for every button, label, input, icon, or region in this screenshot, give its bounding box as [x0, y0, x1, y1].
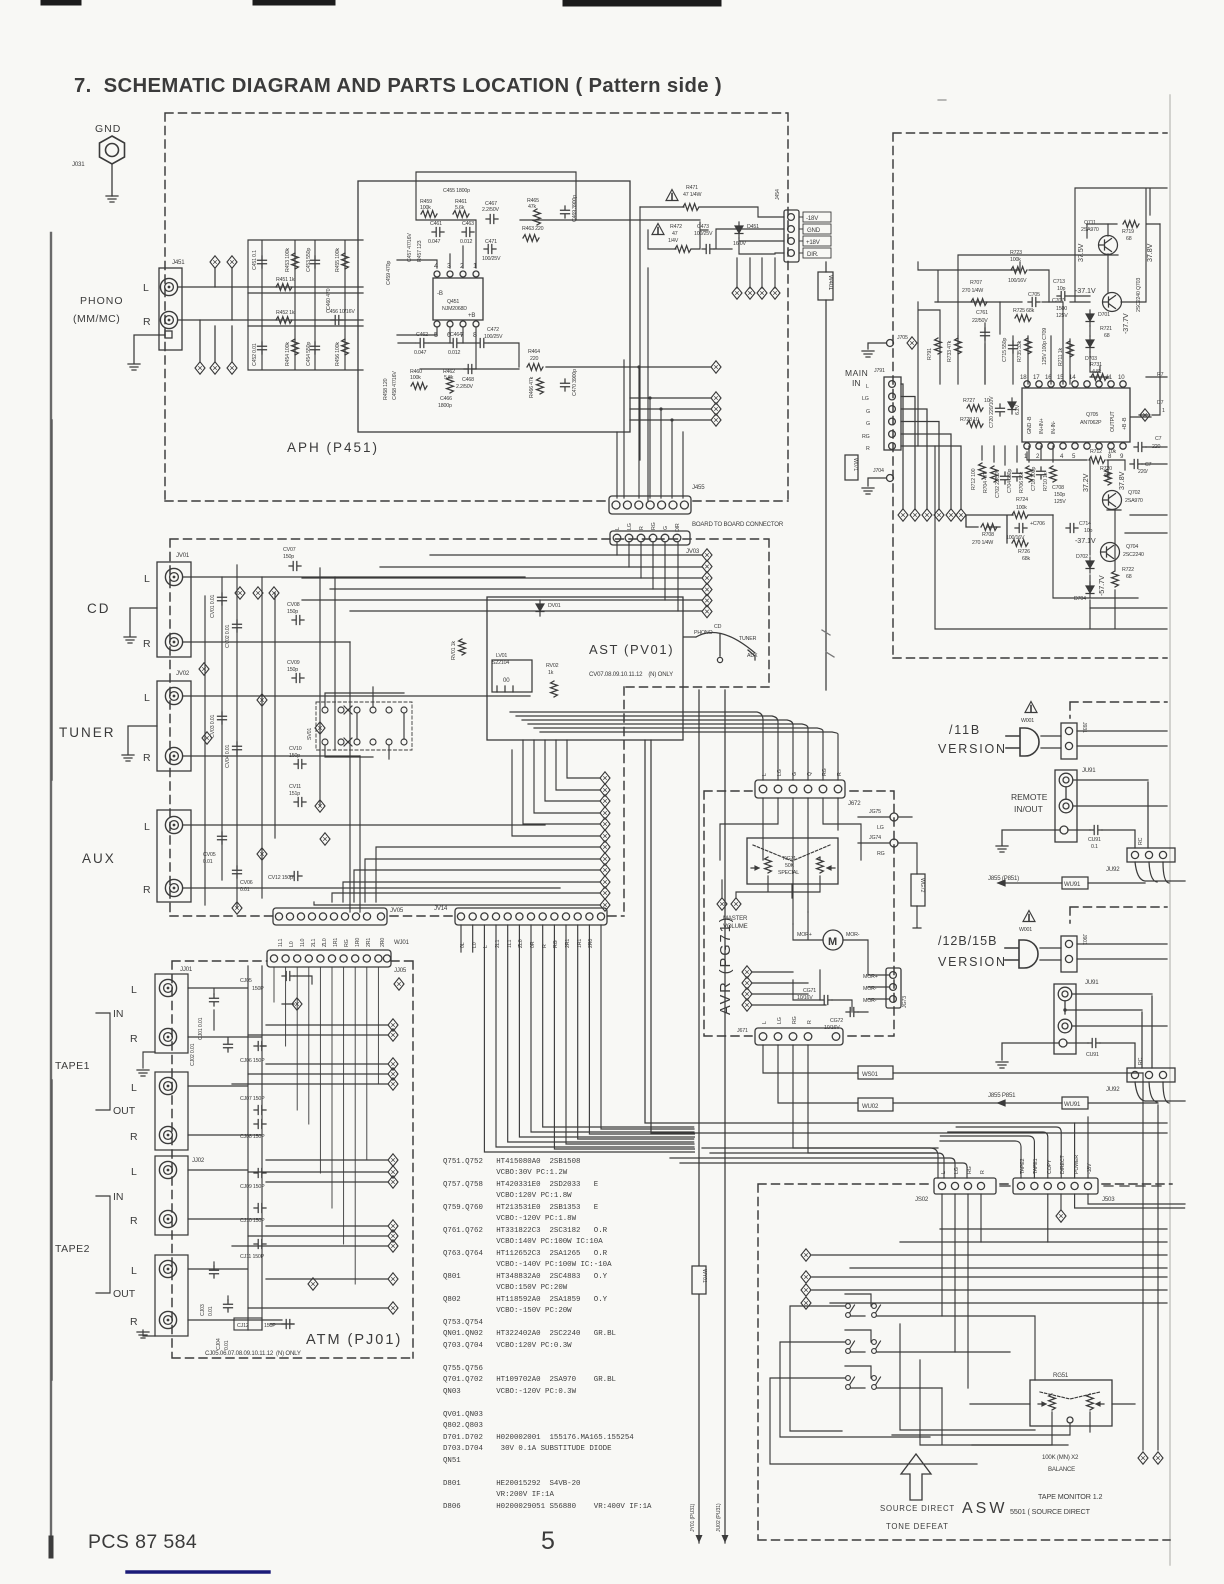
svg-text:LV01: LV01 — [496, 653, 507, 659]
node diamonds supply — [732, 287, 742, 299]
motor M — [823, 930, 843, 950]
resistor R461 — [453, 211, 469, 218]
svg-text:Q761.Q762 HT331822C3 2SC318: Q761.Q762 HT331822C3 2SC3182 O.R — [443, 1227, 608, 1235]
wire diamond feeds — [752, 972, 826, 1005]
svg-text:LG: LG — [627, 523, 633, 530]
wire fan rows upper — [512, 740, 600, 836]
jack TAPE1 OUT L — [159, 1077, 176, 1094]
svg-text:VCBO:-120V PC:1.8W: VCBO:-120V PC:1.8W — [443, 1215, 577, 1223]
resistor RG51 right — [1087, 1394, 1094, 1410]
svg-text:DIR.: DIR. — [807, 251, 819, 258]
svg-text:W001: W001 — [1019, 927, 1032, 933]
capacitor CJ03 — [210, 1266, 219, 1278]
capacitor CV04 — [233, 742, 242, 754]
svg-text:R735 33k: R735 33k — [1017, 340, 1023, 362]
svg-text:SOURCE DIRECT: SOURCE DIRECT — [880, 1504, 955, 1513]
svg-text:JU02 (PU31): JU02 (PU31) — [716, 1503, 722, 1532]
svg-text:LG: LG — [777, 769, 783, 776]
svg-text:L0: L0 — [289, 941, 295, 947]
ground — [124, 637, 136, 643]
node diamonds above phono wires — [210, 256, 220, 268]
capacitor C467 — [486, 215, 498, 224]
cable tag W071 — [845, 455, 858, 480]
svg-text:5: 5 — [1072, 453, 1076, 460]
connector J671 — [755, 1028, 843, 1045]
svg-text:LG: LG — [877, 825, 884, 831]
svg-text:W001: W001 — [1021, 718, 1034, 724]
svg-text:C464: C464 — [450, 332, 462, 338]
svg-text:125V 100p C709: 125V 100p C709 — [1042, 328, 1048, 365]
svg-text:-57.7V: -57.7V — [1097, 575, 1106, 596]
transistor Q702 — [1103, 491, 1122, 510]
wire SV01 row links — [325, 687, 404, 759]
svg-text:125V: 125V — [1056, 313, 1068, 319]
svg-text:QN01.QN02 HT322402A0 2SC224: QN01.QN02 HT322402A0 2SC2240 GR.BL — [443, 1330, 616, 1338]
diode D701 — [1086, 310, 1094, 326]
svg-text:+18V: +18V — [806, 239, 821, 246]
svg-text:ZL0: ZL0 — [322, 938, 328, 947]
svg-text:PHONO: PHONO — [80, 295, 124, 307]
connector JG75 — [890, 813, 898, 821]
svg-text:R: R — [130, 1215, 138, 1227]
svg-text:1800p: 1800p — [438, 403, 452, 409]
resistor RG51 left — [1049, 1394, 1056, 1410]
svg-text:R458 120: R458 120 — [383, 378, 389, 400]
capacitor C704 — [1013, 469, 1022, 481]
capacitor C713 — [1057, 292, 1069, 301]
svg-text:D701: D701 — [1098, 312, 1110, 318]
ATM board dashed outline — [172, 961, 413, 1358]
cable tag WG72 — [911, 874, 925, 906]
resistor R712 — [1089, 457, 1105, 464]
svg-text:37.5V: 37.5V — [1076, 243, 1085, 262]
wire J672 into board — [720, 798, 861, 924]
wire tape1 ground — [143, 1052, 155, 1068]
svg-text:NJM2068D: NJM2068D — [442, 306, 467, 312]
svg-text:VOLUME: VOLUME — [723, 923, 748, 930]
svg-text:C454 550p: C454 550p — [306, 342, 312, 366]
node diamonds JV03 — [702, 549, 712, 561]
svg-text:18: 18 — [1020, 374, 1027, 381]
svg-text:L: L — [131, 1265, 137, 1277]
svg-text:1R0: 1R0 — [355, 938, 361, 947]
svg-text:L: L — [762, 1021, 768, 1024]
connector JG73 — [886, 968, 901, 1008]
resistor R466 — [537, 378, 544, 394]
ground — [996, 846, 1008, 852]
node diamonds below — [195, 362, 205, 374]
wire WU91 run with arrow — [998, 880, 1062, 886]
svg-text:CJ06 150P: CJ06 150P — [240, 1058, 265, 1064]
svg-text:TAPE MONITOR 1.2: TAPE MONITOR 1.2 — [1038, 1492, 1103, 1501]
svg-text:R720: R720 — [1100, 466, 1112, 472]
svg-text:J704: J704 — [873, 468, 884, 474]
svg-text:270 1/4W: 270 1/4W — [972, 540, 993, 546]
svg-text:C453 550p: C453 550p — [306, 248, 312, 272]
resistor R712b — [979, 463, 986, 479]
svg-text:17: 17 — [1033, 374, 1040, 381]
svg-text:J672: J672 — [848, 800, 861, 807]
svg-text:L: L — [131, 1166, 137, 1178]
svg-text:M: M — [828, 936, 837, 948]
svg-text:L: L — [941, 1171, 947, 1174]
svg-text:VCBO:120V PC:1.8W: VCBO:120V PC:1.8W — [443, 1192, 572, 1200]
connector MAIN IN — [884, 377, 901, 450]
svg-text:C471: C471 — [485, 239, 497, 245]
svg-text:C708: C708 — [1052, 485, 1064, 491]
dashed board edge P851 — [1070, 702, 1167, 718]
wire cap rows to diamonds — [232, 976, 388, 1324]
svg-text:JV03: JV03 — [686, 548, 700, 555]
wire dashed right of JS03 — [1104, 1185, 1167, 1187]
capacitor C453 — [311, 256, 320, 268]
capacitor CV08 — [292, 616, 304, 625]
arrow JY01 — [696, 1535, 703, 1543]
wire power drops — [1075, 1194, 1185, 1208]
svg-text:D702: D702 — [1076, 554, 1088, 560]
svg-text:D704: D704 — [1074, 596, 1086, 602]
node diamond — [907, 337, 917, 349]
power amp board dashed outline — [893, 133, 1167, 658]
ground — [137, 1332, 149, 1338]
svg-text:C459 470p: C459 470p — [386, 261, 392, 285]
svg-text:100k: 100k — [420, 205, 431, 211]
wire J704 to ground — [868, 478, 886, 486]
svg-text:AUX: AUX — [82, 851, 116, 866]
wire phono R return — [248, 325, 363, 327]
connector JV05 — [273, 908, 387, 925]
svg-text:R454 100k: R454 100k — [285, 342, 291, 366]
svg-text:R721: R721 — [1100, 326, 1112, 332]
transistor Q711 — [1099, 236, 1118, 255]
svg-text:C720 220/10V: C720 220/10V — [989, 396, 995, 428]
resistor R710 — [1050, 466, 1057, 482]
svg-text:0.01: 0.01 — [224, 1340, 230, 1350]
scan marks — [822, 630, 834, 657]
IC Q705 AN7062P — [1022, 381, 1130, 449]
net labels -18V GND +18V DIR — [799, 212, 831, 258]
wire pin3 to ground — [1002, 1043, 1059, 1060]
resistor RG71 left — [765, 857, 772, 873]
svg-text:R712: R712 — [1090, 449, 1102, 455]
svg-text:C713: C713 — [1053, 279, 1065, 285]
svg-text:R707: R707 — [970, 280, 982, 286]
svg-text:68: 68 — [1104, 333, 1110, 339]
wire verticals to J455 — [617, 360, 683, 498]
svg-text:C705: C705 — [1028, 292, 1040, 298]
jack AUX L — [165, 816, 182, 833]
resistor R726 — [1012, 540, 1028, 547]
svg-text:IN-IN-: IN-IN- — [1051, 421, 1057, 434]
jack frame AUX — [157, 810, 191, 902]
svg-text:1L1: 1L1 — [278, 939, 284, 947]
capacitor C710 — [1037, 467, 1046, 479]
svg-text:SV01: SV01 — [307, 728, 313, 740]
capacitor C720 — [996, 404, 1005, 416]
capacitor CJ04 — [224, 1300, 233, 1312]
capacitor CJ02 — [224, 1040, 233, 1052]
connector JJ05 strip — [267, 950, 391, 967]
svg-text:RV01 1k: RV01 1k — [451, 641, 457, 660]
svg-text:2L1: 2L1 — [311, 939, 317, 947]
svg-text:AN7062P: AN7062P — [1080, 420, 1102, 426]
connector JU91 — [1055, 770, 1077, 842]
svg-text:C452 0.01: C452 0.01 — [252, 343, 258, 366]
resistor R711 — [1067, 341, 1074, 357]
wire amp structure — [918, 188, 1167, 446]
svg-text:TUNER: TUNER — [739, 636, 757, 642]
svg-text:2SC2240: 2SC2240 — [1123, 552, 1144, 558]
svg-text:LG: LG — [862, 396, 869, 402]
svg-text:L: L — [131, 1082, 137, 1094]
svg-text:JU91: JU91 — [1085, 979, 1099, 986]
connector JS02 — [934, 1178, 996, 1194]
capacitor C471 — [484, 245, 496, 254]
svg-text:WJ01: WJ01 — [394, 939, 410, 946]
svg-text:R719: R719 — [1122, 229, 1134, 235]
resistor R727 — [967, 405, 983, 412]
svg-text:CV03 0.01: CV03 0.01 — [210, 715, 216, 738]
ground — [106, 196, 118, 202]
svg-text:Q753.Q754: Q753.Q754 — [443, 1319, 483, 1327]
svg-text:CJ05.06.07.08.09.10.11.12 (N): CJ05.06.07.08.09.10.11.12 (N) ONLY — [205, 1350, 301, 1357]
svg-text:JV14: JV14 — [434, 905, 448, 912]
svg-text:1500: 1500 — [1056, 306, 1067, 312]
volume control RG71 — [747, 838, 838, 884]
svg-text:C460 470: C460 470 — [326, 288, 332, 310]
wire cap to JU92 second — [1067, 1043, 1135, 1068]
capacitor C451 — [258, 256, 267, 268]
svg-text:WU02: WU02 — [862, 1103, 879, 1110]
svg-text:Q: Q — [807, 772, 813, 776]
svg-text:/11B: /11B — [949, 723, 981, 737]
wire JU91 second right — [1065, 994, 1167, 1068]
resistor R728 — [967, 421, 983, 428]
svg-text:CV11: CV11 — [289, 784, 301, 790]
wire cap to JU92 — [1068, 830, 1135, 848]
svg-text:10k: 10k — [1108, 449, 1116, 455]
capacitor CU91 second — [1088, 1039, 1100, 1048]
svg-text:-37.1V: -37.1V — [1075, 536, 1096, 545]
node diamonds right — [711, 392, 721, 404]
svg-text:GND -B: GND -B — [1027, 416, 1033, 434]
svg-text:G: G — [866, 409, 870, 415]
rotary selector arc — [684, 633, 755, 663]
svg-text:0.012: 0.012 — [448, 350, 461, 356]
resistor R451 — [276, 284, 292, 291]
svg-text:100k: 100k — [410, 375, 421, 381]
svg-text:10p: 10p — [1084, 528, 1092, 534]
svg-text:270 1/4W: 270 1/4W — [962, 288, 983, 294]
svg-text:2: 2 — [1036, 453, 1040, 460]
AVR board dashed outline — [704, 791, 894, 1036]
svg-text:R451 1k: R451 1k — [276, 277, 295, 283]
svg-text:C457 47/16V: C457 47/16V — [407, 233, 413, 262]
capacitor C7 right — [1134, 443, 1146, 452]
node diamonds speaker row — [898, 509, 908, 521]
svg-text:DV01: DV01 — [548, 603, 561, 609]
svg-text:IN/OUT: IN/OUT — [1014, 804, 1043, 814]
svg-text:Q755.Q756: Q755.Q756 — [443, 1365, 483, 1373]
AST solid box — [487, 597, 683, 740]
svg-text:22/50V: 22/50V — [972, 318, 988, 324]
svg-text:L: L — [144, 821, 150, 833]
wire JG73 feeds — [868, 975, 889, 999]
center tap — [1067, 1417, 1073, 1423]
connector J705 — [887, 340, 894, 347]
warning triangle R471 — [666, 190, 678, 201]
svg-text:AVR (PG71): AVR (PG71) — [718, 915, 734, 1015]
svg-text:R: R — [866, 446, 870, 452]
transistor Q704 — [1101, 543, 1120, 562]
svg-text:R724: R724 — [1016, 497, 1028, 503]
svg-text:JV01: JV01 — [176, 552, 190, 559]
muting device LV01 S22104 — [492, 660, 532, 692]
svg-text:RC: RC — [1138, 837, 1144, 845]
connector J704 — [887, 475, 894, 482]
wire JU92 second hooks — [1135, 1082, 1185, 1103]
wire RG71 bottoms — [722, 876, 820, 898]
switch bank column A — [846, 1304, 855, 1318]
jack TUNER R — [165, 747, 182, 764]
wire vertical buses — [205, 565, 360, 912]
warning triangle R472 — [652, 224, 664, 235]
svg-text:RV02: RV02 — [546, 663, 559, 669]
capacitor C452 — [258, 342, 267, 354]
svg-text:150p: 150p — [287, 667, 298, 673]
svg-text:47: 47 — [672, 231, 678, 237]
arrow JU02 — [722, 1535, 729, 1543]
svg-text:Q703.Q704 VCBO:120V PC:0.3W: Q703.Q704 VCBO:120V PC:0.3W — [443, 1342, 572, 1350]
capacitor CV03 — [218, 712, 227, 724]
resistor R471 — [683, 204, 699, 211]
svg-text:68: 68 — [1104, 473, 1110, 479]
svg-text:100k: 100k — [1016, 505, 1027, 511]
cable tag WS01 — [858, 1066, 893, 1079]
svg-text:CV08: CV08 — [287, 602, 300, 608]
capacitor C470 — [561, 379, 570, 391]
svg-text:VCBO:150V PC:20W: VCBO:150V PC:20W — [443, 1284, 568, 1292]
svg-text:100K (MN) X2: 100K (MN) X2 — [1042, 1454, 1079, 1461]
node diamond — [1140, 409, 1150, 421]
ground — [996, 1062, 1008, 1068]
svg-text:R712 100: R712 100 — [971, 468, 977, 490]
connector J455 — [609, 496, 691, 514]
diode D702 — [1086, 557, 1094, 573]
svg-text:R: R — [130, 1131, 138, 1143]
svg-text:100/25V: 100/25V — [694, 231, 713, 237]
resistor R463 — [523, 235, 539, 242]
svg-text:CJ04: CJ04 — [216, 1338, 222, 1350]
jack TAPE2 OUT L — [159, 1260, 176, 1277]
svg-text:+B -B: +B -B — [1122, 417, 1128, 430]
svg-text:SPECIAL: SPECIAL — [778, 870, 799, 876]
connector JU92 — [1127, 848, 1175, 862]
svg-text:Q802 HT118592A0 2SA185: Q802 HT118592A0 2SA1859 O.Y — [443, 1296, 608, 1304]
svg-text:68: 68 — [1126, 236, 1132, 242]
resistor R455 — [342, 253, 349, 269]
svg-text:47 1/4W: 47 1/4W — [683, 192, 702, 198]
wire WU91 right — [1088, 882, 1145, 884]
node diamond — [394, 978, 404, 990]
svg-text:J791: J791 — [874, 368, 885, 374]
switch SV01 contacts row 1 — [322, 706, 407, 714]
svg-text:50K: 50K — [785, 863, 794, 869]
svg-text:L: L — [615, 527, 621, 530]
svg-text:D701.D702 H020002001 155176: D701.D702 H020002001 155176.MA165.155254 — [443, 1434, 634, 1442]
svg-text:C714: C714 — [1079, 521, 1091, 527]
svg-text:AUX: AUX — [747, 653, 758, 659]
svg-text:TONE DEFEAT: TONE DEFEAT — [886, 1522, 949, 1531]
svg-text:5: 5 — [541, 1527, 555, 1555]
resistor R725 — [1015, 315, 1031, 322]
svg-text:L: L — [143, 282, 149, 294]
svg-text:QN51: QN51 — [443, 1457, 461, 1465]
node diamonds input area — [235, 587, 245, 599]
svg-text:151p: 151p — [289, 791, 300, 797]
svg-text:R455 100k: R455 100k — [335, 248, 341, 272]
svg-text:WG72: WG72 — [919, 878, 925, 892]
capacitor CJ06 — [254, 1042, 266, 1051]
wire JS02 feed bundle — [670, 1148, 967, 1178]
svg-text:WU91: WU91 — [1064, 1101, 1081, 1108]
svg-text:1L0: 1L0 — [300, 939, 306, 947]
wire CD ground — [130, 608, 157, 636]
svg-text:S22104: S22104 — [492, 660, 509, 666]
resistor R708 — [981, 524, 997, 531]
page fold crease — [1169, 95, 1171, 1565]
svg-text:J455: J455 — [692, 484, 705, 491]
svg-text:R: R — [980, 1170, 986, 1174]
svg-text:G: G — [792, 772, 798, 776]
svg-text:C702 22/50V: C702 22/50V — [995, 469, 1001, 498]
warning triangle W001 — [1025, 702, 1037, 713]
capacitor CJ10 — [254, 1204, 266, 1213]
svg-text:WY01: WY01 — [701, 1269, 707, 1283]
svg-text:Q801 HT348832A0 2SC488: Q801 HT348832A0 2SC4883 O.Y — [443, 1273, 608, 1281]
capacitor CJ01 — [210, 994, 219, 1006]
input board dashed outline — [170, 539, 769, 916]
svg-text:CJ09 150P: CJ09 150P — [240, 1184, 265, 1190]
svg-text:CV02 0.01: CV02 0.01 — [225, 625, 231, 648]
svg-text:IN+IN+: IN+IN+ — [1039, 418, 1045, 434]
svg-text:0.01: 0.01 — [208, 1306, 214, 1316]
wire JG pins — [858, 817, 917, 874]
capacitor C702 — [1001, 472, 1010, 484]
cable tag WU02 — [858, 1098, 893, 1111]
capacitor CJ08 — [254, 1120, 266, 1129]
svg-text:JJ02: JJ02 — [192, 1157, 205, 1164]
svg-text:Q802.Q803: Q802.Q803 — [443, 1422, 483, 1430]
jack frame CD — [157, 562, 191, 657]
connector J672 — [755, 780, 845, 798]
wire supply drop verticals — [737, 258, 775, 288]
svg-text:TAPE2: TAPE2 — [55, 1243, 90, 1255]
svg-text:2SA970: 2SA970 — [1125, 498, 1143, 504]
capacitor C462 — [416, 339, 428, 348]
wire op-amp bottom — [397, 327, 476, 369]
capacitor CV05 — [218, 832, 227, 844]
svg-text:C715 550p: C715 550p — [1002, 338, 1008, 362]
svg-text:CV12 150p: CV12 150p — [268, 875, 293, 881]
label IN bracket 2 — [96, 1196, 110, 1293]
resistor R452 — [276, 317, 292, 324]
svg-text:C710 100p: C710 100p — [1031, 467, 1037, 491]
svg-text:-37.1V: -37.1V — [1075, 286, 1096, 295]
svg-text:J671: J671 — [737, 1028, 748, 1034]
svg-text:+C706: +C706 — [1030, 521, 1045, 527]
svg-text:2R1: 2R1 — [366, 938, 372, 947]
